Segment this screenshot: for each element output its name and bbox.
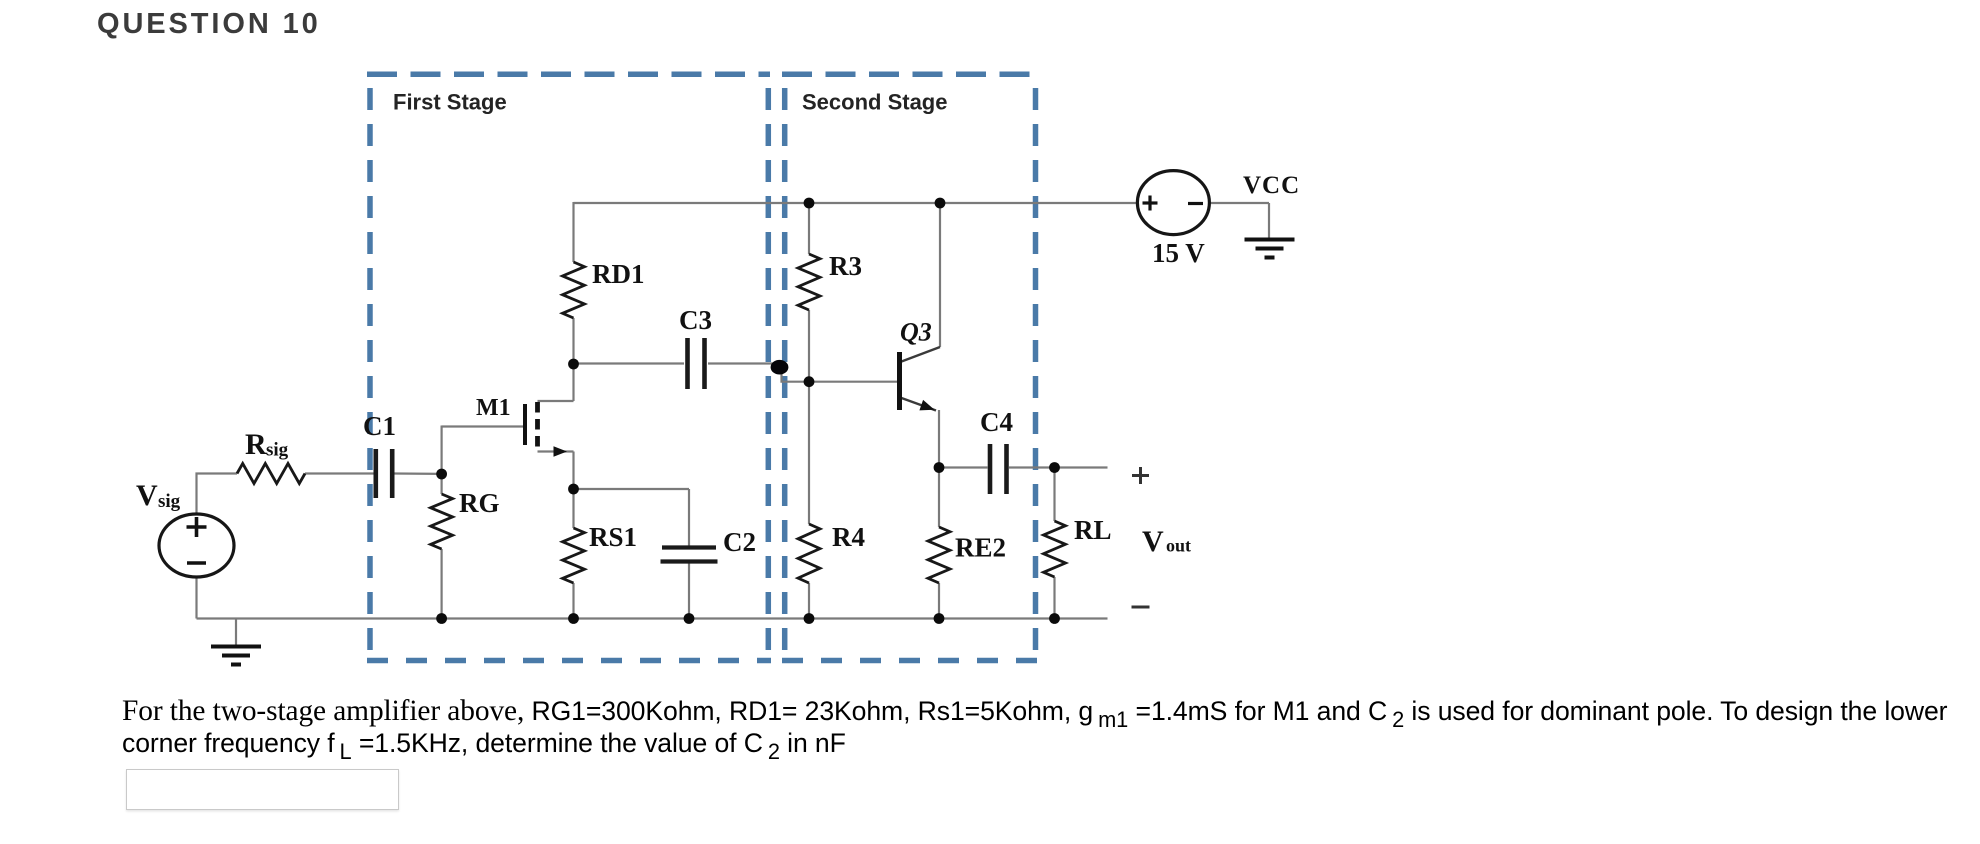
svg-text:RL: RL: [1074, 515, 1112, 545]
svg-text:C2: C2: [723, 527, 756, 557]
svg-text:RG: RG: [459, 488, 500, 518]
svg-text:RS1: RS1: [589, 522, 637, 552]
svg-text:RD1: RD1: [592, 259, 645, 289]
svg-text:sig: sig: [158, 491, 181, 512]
svg-text:R: R: [245, 428, 267, 461]
svg-text:15 V: 15 V: [1152, 238, 1205, 268]
svg-text:out: out: [1166, 536, 1191, 556]
svg-text:C1: C1: [363, 411, 396, 441]
svg-text:First Stage: First Stage: [393, 90, 507, 115]
svg-text:M1: M1: [476, 395, 511, 421]
svg-text:sig: sig: [266, 440, 289, 461]
svg-text:R3: R3: [829, 251, 862, 281]
svg-text:R4: R4: [832, 522, 865, 552]
svg-text:Second Stage: Second Stage: [802, 90, 947, 115]
svg-text:V: V: [1142, 525, 1164, 558]
svg-text:RE2: RE2: [955, 533, 1006, 563]
svg-text:Q3: Q3: [900, 318, 932, 347]
svg-text:C3: C3: [679, 305, 712, 335]
svg-text:VCC: VCC: [1243, 172, 1300, 199]
svg-text:V: V: [136, 479, 158, 512]
svg-text:C4: C4: [980, 407, 1013, 437]
